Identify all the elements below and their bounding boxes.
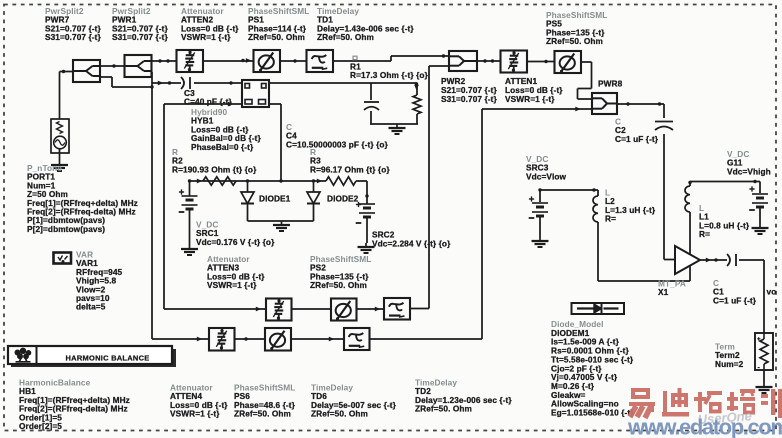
- battery G11: [749, 186, 768, 210]
- wire C2 top lead: [663, 104, 665, 118]
- label PhaseShiftSML PS5: [546, 10, 607, 46]
- wire TD6 riser x482 to PWR8 in2: [370, 109, 593, 339]
- attenuator ATTEN1: [501, 51, 528, 73]
- label PWR2: [441, 76, 497, 104]
- wire PS1 to TD1: [280, 60, 307, 62]
- battery SRC3: [529, 196, 548, 218]
- wire HYB1 top-right rail to RC network: [269, 82, 417, 84]
- label C1: [713, 278, 757, 305]
- diode DIODE1: [241, 181, 254, 206]
- power combiner PWR8: [592, 93, 617, 114]
- label DIODE2: [327, 194, 359, 204]
- ground SRC3: [532, 237, 549, 247]
- wire SRC3 leads: [539, 190, 541, 237]
- svg-text:C=10.50000003 pF {-t} {o}: C=10.50000003 pF {-t} {o}: [286, 139, 389, 149]
- wire Term2 to ground: [763, 370, 765, 383]
- wire ATTEN4 to PS6: [235, 337, 266, 340]
- node ATTEN2-PS1 junction: [241, 58, 251, 63]
- label R3: [310, 147, 390, 174]
- svg-text:X1: X1: [658, 287, 669, 297]
- label V_DC SRC1: [196, 220, 275, 247]
- wire ATTEN1 to PS5: [527, 60, 555, 63]
- wire PWR7 out2 down-step: [100, 77, 152, 87]
- phase shifter PS2: [331, 299, 357, 321]
- svg-text:ZRef=50. Ohm: ZRef=50. Ohm: [310, 280, 367, 290]
- label Attenuator ATTEN4: [170, 383, 228, 419]
- power combiner PWR2: [449, 51, 477, 71]
- wire bottom row into ATTEN4: [152, 337, 209, 342]
- capacitor C1 (series): [727, 254, 736, 266]
- label DIODE1: [259, 194, 291, 204]
- svg-text:C=1 uF {-t}: C=1 uF {-t}: [713, 295, 757, 305]
- wire SRC1 drop: [189, 181, 191, 196]
- svg-text:Eg=1.01568e-010 {-t}: Eg=1.01568e-010 {-t}: [551, 408, 634, 418]
- wire G11 leads: [759, 182, 761, 225]
- inductor L2: [593, 196, 598, 222]
- wire source to PWR7 input: [60, 72, 74, 120]
- wire PWR1 out1 to ATTEN2: [152, 60, 177, 62]
- svg-text:VSWR=1 {-t}: VSWR=1 {-t}: [505, 94, 555, 104]
- node PWR2 input dot: [442, 54, 445, 57]
- time delay TD1: [307, 50, 334, 72]
- wire PWR2 out to ATTEN1: [477, 60, 501, 62]
- node rail dots: [188, 179, 322, 184]
- ground G11: [752, 224, 769, 234]
- resistor R2: [203, 177, 236, 185]
- svg-text:ZRef=50. Ohm: ZRef=50. Ohm: [311, 409, 368, 419]
- inductor L1: [685, 186, 690, 212]
- label MT_PA X1: [658, 279, 686, 298]
- wire HYB1 bottom-left big loop to ATTEN3 row: [164, 104, 266, 309]
- svg-text:ZRef=50. Ohm: ZRef=50. Ohm: [234, 409, 291, 419]
- wire PS6 to TD6: [291, 337, 344, 342]
- svg-text:PWR8: PWR8: [598, 79, 623, 89]
- label TimeDelay TD6: [311, 383, 397, 419]
- node PWR7-PWR1 junction: [112, 64, 115, 67]
- svg-text:ZRef=50. Ohm: ZRef=50. Ohm: [546, 36, 603, 46]
- svg-text:DIODE1: DIODE1: [259, 194, 291, 204]
- label VAR VAR1: [76, 250, 123, 312]
- capacitor C4 cap in RC network: [364, 102, 379, 110]
- svg-text:Order[2]=5: Order[2]=5: [19, 421, 62, 431]
- wire SRC2 drop: [365, 181, 368, 204]
- svg-text:VSWR=1 {-t}: VSWR=1 {-t}: [181, 32, 231, 42]
- label C3: [184, 88, 232, 107]
- diode DIODE2: [307, 181, 320, 206]
- node TD1 wire pad: [353, 56, 357, 59]
- op-amp U1 (MT_PA X1 amplifier): [675, 246, 700, 274]
- resistor R1 shunt (in RC network): [413, 95, 421, 114]
- svg-text:ZRef=50. Ohm: ZRef=50. Ohm: [248, 32, 305, 42]
- svg-text:S31=0.707 {-t}: S31=0.707 {-t}: [45, 32, 101, 42]
- svg-text:R=17.3 Ohm {-t} {o}: R=17.3 Ohm {-t} {o}: [350, 70, 429, 80]
- node C3-HYB1 junction: [229, 81, 232, 84]
- node C3 branch arrow: [158, 81, 171, 86]
- svg-text:R=: R=: [699, 229, 710, 239]
- svg-text:Vdc=Vlow: Vdc=Vlow: [526, 171, 567, 181]
- svg-text:VSWR=1 {-t}: VSWR=1 {-t}: [207, 280, 257, 290]
- label Hybrid90 HYB1: [191, 107, 262, 152]
- resistor R3: [326, 177, 356, 185]
- wire C3 branch: [152, 82, 181, 84]
- svg-text:+: +: [757, 337, 761, 343]
- label PhaseShiftSML PS6: [234, 383, 296, 419]
- svg-text:Vdc=2.284 V {-t} {o}: Vdc=2.284 V {-t} {o}: [372, 239, 451, 249]
- svg-text:R=96.17 Ohm {t} {o}: R=96.17 Ohm {t} {o}: [310, 164, 390, 174]
- label V_DC SRC3: [526, 154, 567, 181]
- wire SRC2 to ground: [366, 217, 368, 243]
- label PwrSplit2 PWR1: [112, 6, 168, 42]
- ground RC network: [389, 124, 406, 134]
- capacitor C3: [181, 77, 190, 89]
- wire PS2 to TD2: [357, 307, 385, 312]
- battery SRC1: [179, 189, 198, 212]
- node PWR1-ATTEN2 dots: [158, 59, 169, 62]
- node PWR8 in2 arrow: [575, 107, 580, 112]
- ground SRC1: [181, 245, 198, 255]
- hybrid coupler HYB1: [242, 80, 269, 107]
- wire TD1 to PWR2 with step: [334, 56, 450, 61]
- node loop arrow near HYB1: [228, 102, 261, 312]
- wire L1 to amp top: [689, 212, 691, 255]
- label TimeDelay TD1: [317, 6, 414, 42]
- ground SRC2: [358, 243, 375, 253]
- svg-text:vo: vo: [767, 287, 777, 297]
- capacitor C2 (vertical): [655, 122, 673, 131]
- wire L1 top rail to G11: [688, 180, 760, 186]
- svg-text:Vdc=0.176 V {-t} {o}: Vdc=0.176 V {-t} {o}: [196, 237, 275, 247]
- svg-text:C=40 pF {-t}: C=40 pF {-t}: [184, 97, 232, 107]
- svg-text:P[2]=dbmtow(pavs): P[2]=dbmtow(pavs): [27, 224, 105, 234]
- label PhaseShiftSML PS2: [310, 254, 371, 290]
- label Diode_Model DIODEM1: [551, 319, 634, 418]
- wire TD2 riser x429 to PWR2 in2: [410, 66, 449, 309]
- node riser-PWR7out2 junction: [150, 85, 153, 88]
- wire diode bias rail: [190, 180, 368, 182]
- label PhaseShiftSML PS1: [248, 6, 309, 42]
- watermark red chinese text: [629, 388, 782, 418]
- label C4: [286, 122, 389, 149]
- wire PWR1 out2 riser x152 down to bottom row: [151, 72, 153, 339]
- label L1: [699, 203, 750, 239]
- svg-text:DIODE2: DIODE2: [327, 194, 359, 204]
- label PwrSplit2 PWR7: [45, 6, 101, 42]
- attenuator ATTEN4: [209, 328, 235, 351]
- svg-text:R=190.93 Ohm {t} {o}: R=190.93 Ohm {t} {o}: [172, 164, 257, 174]
- wire HYB1 bottom-right to C4 node: [269, 104, 281, 181]
- watermark faint script: [697, 408, 752, 427]
- power splitter PWR1: [125, 55, 152, 77]
- wire ATTEN3 to PS2: [292, 308, 332, 310]
- svg-text:Vdc=Vhigh: Vdc=Vhigh: [727, 166, 771, 176]
- label P_nTone PORT1: [27, 163, 138, 234]
- wire C2 bottom lead to amp input: [664, 134, 675, 260]
- label Attenuator ATTEN3: [207, 254, 265, 290]
- wire SRC1 to ground: [189, 209, 191, 245]
- label R1: [350, 62, 429, 81]
- attenuator ATTEN2: [177, 50, 204, 72]
- label node vo: [767, 287, 777, 297]
- label ATTEN1: [505, 76, 563, 104]
- wire C3 to HYB1: [194, 82, 242, 84]
- watermark blue url: [627, 415, 782, 438]
- diode model icon DIODEM1: [572, 303, 625, 314]
- svg-text:Num=2: Num=2: [715, 359, 744, 369]
- wire RC network cap lead: [370, 83, 372, 100]
- wire ATTEN2 to PS1: [203, 60, 254, 62]
- phase shifter PS1: [254, 50, 281, 72]
- wire PWR7 out1 to PWR1 input: [100, 65, 125, 67]
- svg-text:VSWR=1 {-t}: VSWR=1 {-t}: [170, 409, 220, 419]
- label R2: [172, 147, 257, 174]
- svg-text:R=: R=: [605, 214, 616, 224]
- wire RC network resistor drop: [416, 83, 418, 95]
- wire PS5 zigzag to PWR8 in1: [578, 62, 593, 99]
- svg-text:C=1 uF {-t}: C=1 uF {-t}: [615, 134, 659, 144]
- power splitter PWR7: [73, 60, 100, 82]
- label C2: [615, 117, 659, 144]
- node amp out arrow: [706, 258, 718, 263]
- attenuator ATTEN3: [266, 299, 292, 321]
- svg-text:PhaseBal=0 {-t}: PhaseBal=0 {-t}: [191, 142, 254, 152]
- label Attenuator ATTEN2: [181, 6, 239, 42]
- harmonic balance banner: [8, 346, 176, 367]
- ground PORT1: [51, 161, 68, 171]
- wire PWR8 output: [617, 103, 664, 105]
- terminator Term2: [755, 333, 773, 372]
- label Term Term2: [715, 342, 744, 369]
- svg-text:delta=5: delta=5: [76, 302, 106, 312]
- svg-text:www.edatop.com: www.edatop.com: [627, 415, 782, 438]
- svg-text:ZRef=50. Ohm: ZRef=50. Ohm: [415, 404, 472, 414]
- label L2: [605, 188, 656, 224]
- wire SRC3 to L2 top rail: [538, 188, 598, 191]
- wire L2 top lead: [597, 190, 599, 196]
- svg-text:S31=0.707 {-t}: S31=0.707 {-t}: [441, 94, 497, 104]
- svg-text:S31=0.707 {-t}: S31=0.707 {-t}: [112, 32, 168, 42]
- ground Term2: [756, 383, 773, 393]
- phase shifter PS6: [265, 328, 291, 351]
- wire amp output to C1: [700, 259, 727, 261]
- node RC rail junction: [414, 82, 419, 90]
- ground diodes: [273, 221, 290, 231]
- source PORT1 (P_nTone): [51, 119, 69, 161]
- time delay TD6: [344, 328, 370, 350]
- label PWR8: [598, 79, 623, 89]
- wire diode bottom rail: [248, 206, 314, 221]
- node PS1-TD1 junction: [293, 59, 296, 62]
- label SRC2: [372, 230, 451, 249]
- svg-text:HARMONIC BALANCE: HARMONIC BALANCE: [66, 354, 150, 363]
- time delay TD2: [384, 298, 410, 320]
- label HarmonicBalance HB1: [19, 378, 130, 432]
- node PWR8 out dots: [626, 102, 661, 105]
- wire L2 bottom to amp bottom: [598, 222, 690, 281]
- phase shifter PS5: [555, 51, 582, 73]
- label TimeDelay TD2: [415, 378, 512, 414]
- battery SRC2: [356, 202, 375, 223]
- node PWR2-ATTEN1 dots: [483, 59, 494, 62]
- svg-text:ZRef=50. Ohm: ZRef=50. Ohm: [317, 32, 374, 42]
- wire RC bottom rail: [370, 111, 418, 124]
- node source-PWR7 junction: [62, 70, 65, 73]
- label V_DC G11: [727, 149, 771, 176]
- VAR icon VAR1: [54, 253, 72, 264]
- wire C1 to vo node: [739, 260, 764, 333]
